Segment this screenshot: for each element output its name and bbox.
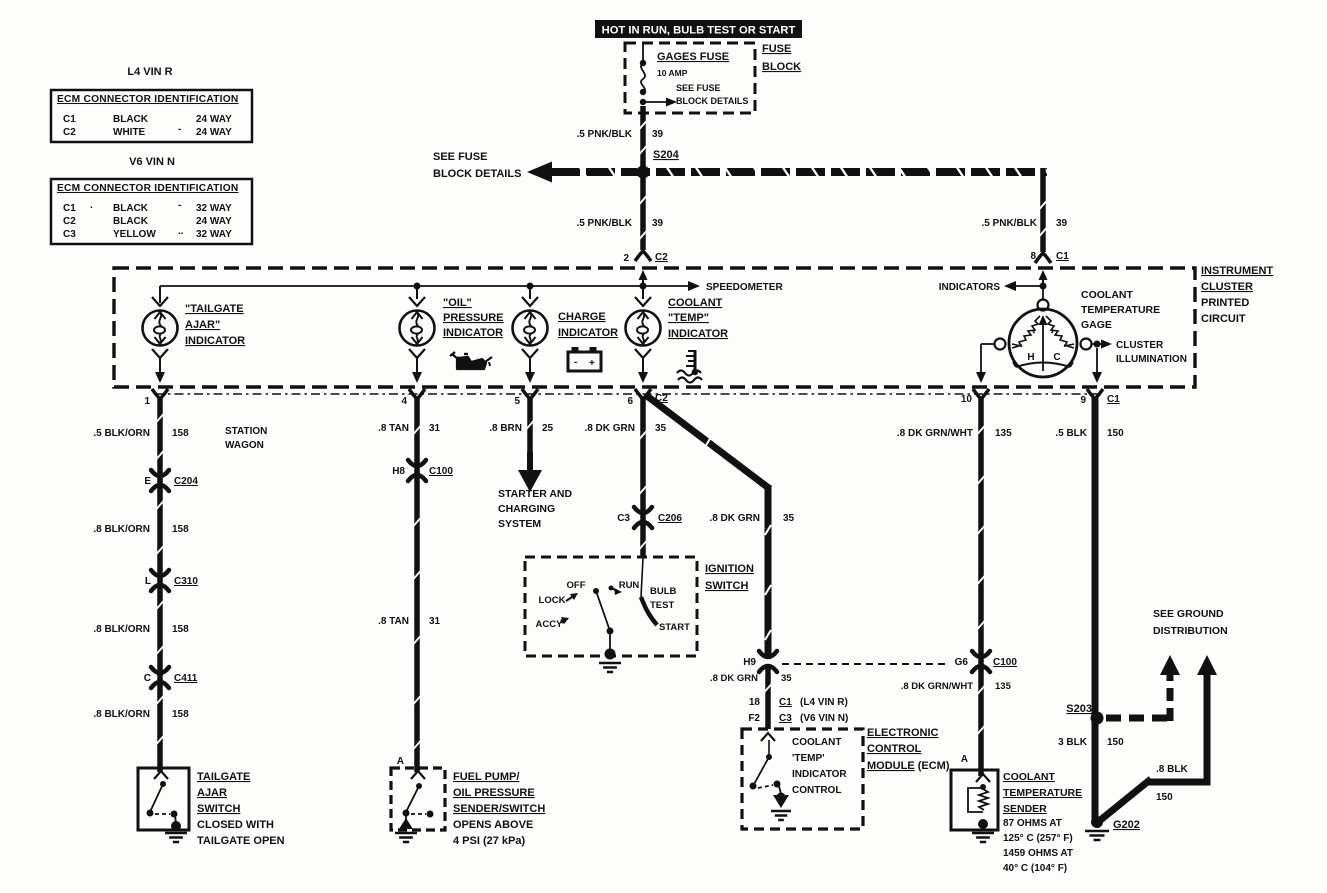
svg-text:.8 DK GRN/WHT: .8 DK GRN/WHT [901,681,974,692]
svg-text:L4 VIN R: L4 VIN R [127,66,172,78]
svg-text:.5 PNK/BLK: .5 PNK/BLK [981,218,1037,229]
svg-text:-: - [178,200,181,211]
svg-text:FUSE: FUSE [762,43,791,55]
svg-text:IGNITION: IGNITION [705,563,754,575]
svg-text:DISTRIBUTION: DISTRIBUTION [1153,625,1228,637]
svg-text:C3: C3 [779,713,792,724]
svg-text:BLACK: BLACK [113,114,149,125]
svg-text:+: + [589,358,595,369]
svg-text:AJAR": AJAR" [185,319,220,331]
svg-text:135: 135 [995,428,1012,439]
svg-text:G202: G202 [1113,819,1140,831]
svg-text:COOLANT: COOLANT [668,297,723,309]
svg-text:.: . [90,200,93,211]
svg-text:ECM CONNECTOR IDENTIFICATION: ECM CONNECTOR IDENTIFICATION [57,183,239,194]
svg-text:C2: C2 [655,252,668,263]
svg-text:"OIL": "OIL" [443,297,472,309]
svg-text:G6: G6 [955,657,969,668]
svg-text:F2: F2 [748,713,760,724]
svg-text:6: 6 [627,396,633,407]
svg-text:BLOCK DETAILS: BLOCK DETAILS [433,168,521,180]
svg-text:"TEMP": "TEMP" [668,312,709,324]
svg-text:H9: H9 [743,657,756,668]
svg-text:A: A [961,754,968,765]
svg-text:.8 BLK/ORN: .8 BLK/ORN [93,709,150,720]
svg-text:10: 10 [961,394,973,405]
svg-text:CHARGE: CHARGE [558,311,606,323]
svg-text:H: H [1027,352,1034,363]
svg-text:TAILGATE: TAILGATE [197,771,250,783]
svg-text:S204: S204 [653,149,680,161]
svg-text:BULB: BULB [650,586,677,597]
svg-text:35: 35 [783,513,795,524]
svg-text:TEMPERATURE: TEMPERATURE [1003,787,1082,799]
svg-text:BLOCK: BLOCK [762,61,801,73]
svg-text:.5 PNK/BLK: .5 PNK/BLK [576,218,632,229]
svg-text:PRESSURE: PRESSURE [443,312,504,324]
svg-text:C100: C100 [429,466,453,477]
svg-text:COOLANT: COOLANT [792,737,841,748]
svg-text:COOLANT: COOLANT [1081,289,1133,301]
svg-text:PRINTED: PRINTED [1201,297,1249,309]
svg-text:INDICATOR: INDICATOR [443,327,503,339]
svg-text:ACCY: ACCY [536,619,564,630]
svg-text:H8: H8 [392,466,405,477]
svg-text:C1: C1 [63,114,76,125]
svg-text:35: 35 [781,673,792,684]
svg-text:C204: C204 [174,476,198,487]
svg-text:CONTROL: CONTROL [792,785,841,796]
svg-text:..: .. [178,226,184,237]
svg-text:GAGES FUSE: GAGES FUSE [657,51,729,63]
svg-text:.8 BLK/ORN: .8 BLK/ORN [93,524,150,535]
svg-text:32 WAY: 32 WAY [196,203,232,214]
svg-text:STARTER AND: STARTER AND [498,488,572,500]
svg-text:SWITCH: SWITCH [197,803,240,815]
svg-text:C310: C310 [174,576,198,587]
svg-text:135: 135 [995,681,1012,692]
svg-text:SPEEDOMETER: SPEEDOMETER [706,282,783,293]
svg-text:39: 39 [1056,218,1068,229]
svg-text:TEMPERATURE: TEMPERATURE [1081,304,1160,316]
svg-text:.8 TAN: .8 TAN [378,423,409,434]
svg-text:INSTRUMENT: INSTRUMENT [1201,265,1273,277]
svg-text:25: 25 [542,423,554,434]
svg-text:YELLOW: YELLOW [113,229,156,240]
svg-text:2: 2 [623,253,629,264]
svg-text:SEE GROUND: SEE GROUND [1153,608,1224,620]
svg-text:1459 OHMS AT: 1459 OHMS AT [1003,848,1073,859]
svg-text:CHARGING: CHARGING [498,503,555,515]
svg-text:.5 PNK/BLK: .5 PNK/BLK [576,129,632,140]
svg-text:OFF: OFF [567,580,586,591]
svg-text:18: 18 [749,697,761,708]
svg-text:ILLUMINATION: ILLUMINATION [1116,354,1187,365]
svg-text:9: 9 [1080,395,1086,406]
svg-text:TAILGATE OPEN: TAILGATE OPEN [197,835,285,847]
svg-text:32 WAY: 32 WAY [196,229,232,240]
svg-text:.8 DK GRN: .8 DK GRN [710,673,758,684]
svg-text:FUEL PUMP/: FUEL PUMP/ [453,771,519,783]
svg-text:C3: C3 [63,229,76,240]
svg-text:WHITE: WHITE [113,127,146,138]
svg-text:INDICATORS: INDICATORS [939,282,1001,293]
svg-text:SEE FUSE: SEE FUSE [433,151,487,163]
svg-text:150: 150 [1107,428,1124,439]
svg-text:.5 BLK/ORN: .5 BLK/ORN [93,428,150,439]
svg-text:INDICATOR: INDICATOR [558,327,618,339]
svg-text:HOT IN RUN, BULB TEST OR START: HOT IN RUN, BULB TEST OR START [602,25,796,37]
svg-text:INDICATOR: INDICATOR [185,335,245,347]
svg-text:GAGE: GAGE [1081,319,1112,331]
svg-text:MODULE (ECM): MODULE (ECM) [867,760,950,772]
svg-text:CLOSED WITH: CLOSED WITH [197,819,274,831]
svg-text:STATION: STATION [225,426,267,437]
svg-text:START: START [659,622,690,633]
svg-text:SWITCH: SWITCH [705,580,748,592]
svg-text:10 AMP: 10 AMP [657,68,688,78]
svg-text:WAGON: WAGON [225,440,264,451]
svg-text:.8 TAN: .8 TAN [378,616,409,627]
svg-text:V6 VIN N: V6 VIN N [129,156,175,168]
svg-text:39: 39 [652,218,664,229]
svg-text:S203: S203 [1066,703,1092,715]
svg-text:.8 DK GRN/WHT: .8 DK GRN/WHT [897,428,973,439]
svg-text:ECM CONNECTOR IDENTIFICATION: ECM CONNECTOR IDENTIFICATION [57,94,239,105]
svg-text:3 BLK: 3 BLK [1058,737,1088,748]
svg-text:OPENS ABOVE: OPENS ABOVE [453,819,533,831]
svg-text:SYSTEM: SYSTEM [498,518,541,530]
svg-text:C1: C1 [1056,251,1069,262]
svg-text:C: C [1053,352,1060,363]
svg-text:-: - [574,357,577,368]
svg-text:31: 31 [429,616,441,627]
svg-text:1: 1 [144,396,150,407]
svg-text:SENDER: SENDER [1003,803,1047,815]
svg-text:C2: C2 [63,127,76,138]
svg-text:.8 BLK/ORN: .8 BLK/ORN [93,624,150,635]
svg-text:4: 4 [401,396,407,407]
svg-text:BLOCK DETAILS: BLOCK DETAILS [676,96,748,106]
svg-text:L: L [145,576,151,587]
svg-text:(L4 VIN R): (L4 VIN R) [800,697,848,708]
svg-text:CONTROL: CONTROL [867,743,922,755]
svg-text:40° C (104° F): 40° C (104° F) [1003,863,1067,874]
svg-text:158: 158 [172,428,189,439]
svg-text:CLUSTER: CLUSTER [1116,340,1164,351]
svg-text:C1: C1 [779,697,792,708]
svg-text:C411: C411 [174,673,198,684]
svg-text:150: 150 [1156,792,1173,803]
svg-text:5: 5 [514,396,520,407]
svg-text:31: 31 [429,423,441,434]
svg-text:-: - [178,124,181,135]
svg-text:CIRCUIT: CIRCUIT [1201,313,1246,325]
svg-text:RUN: RUN [619,580,640,591]
svg-text:C206: C206 [658,513,682,524]
svg-text:(V6 VIN N): (V6 VIN N) [800,713,848,724]
svg-text:OIL PRESSURE: OIL PRESSURE [453,787,535,799]
svg-text:C2: C2 [63,216,76,227]
svg-text:INDICATOR: INDICATOR [792,769,847,780]
svg-text:.8 DK GRN: .8 DK GRN [709,513,760,524]
svg-text:TEST: TEST [650,600,674,611]
svg-text:LOCK: LOCK [539,595,566,606]
svg-text:COOLANT: COOLANT [1003,771,1055,783]
svg-text:BLACK: BLACK [113,203,149,214]
svg-text:.8 BLK: .8 BLK [1156,764,1188,775]
svg-text:.5 BLK: .5 BLK [1055,428,1087,439]
svg-text:C: C [144,673,151,684]
svg-text:BLACK: BLACK [113,216,149,227]
svg-text:24 WAY: 24 WAY [196,114,232,125]
svg-text:C3: C3 [617,513,630,524]
svg-text:'TEMP': 'TEMP' [792,753,825,764]
svg-text:87 OHMS AT: 87 OHMS AT [1003,818,1062,829]
svg-text:AJAR: AJAR [197,787,227,799]
svg-text:24 WAY: 24 WAY [196,216,232,227]
svg-text:35: 35 [655,423,667,434]
svg-text:158: 158 [172,624,189,635]
svg-text:C100: C100 [993,657,1017,668]
svg-text:.8 BRN: .8 BRN [489,423,522,434]
svg-text:.8 DK GRN: .8 DK GRN [584,423,635,434]
svg-text:C1: C1 [1107,394,1120,405]
svg-text:A: A [397,756,404,767]
svg-text:24 WAY: 24 WAY [196,127,232,138]
svg-text:158: 158 [172,709,189,720]
svg-text:CLUSTER: CLUSTER [1201,281,1253,293]
svg-text:C1: C1 [63,203,76,214]
svg-text:INDICATOR: INDICATOR [668,328,728,340]
svg-text:150: 150 [1107,737,1124,748]
svg-text:"TAILGATE: "TAILGATE [185,303,244,315]
svg-text:39: 39 [652,129,664,140]
svg-text:125° C (257° F): 125° C (257° F) [1003,833,1073,844]
svg-text:E: E [144,476,151,487]
svg-text:4 PSI (27 kPa): 4 PSI (27 kPa) [453,835,525,847]
svg-text:SENDER/SWITCH: SENDER/SWITCH [453,803,545,815]
svg-text:SEE FUSE: SEE FUSE [676,83,721,93]
svg-text:ELECTRONIC: ELECTRONIC [867,727,939,739]
svg-text:158: 158 [172,524,189,535]
